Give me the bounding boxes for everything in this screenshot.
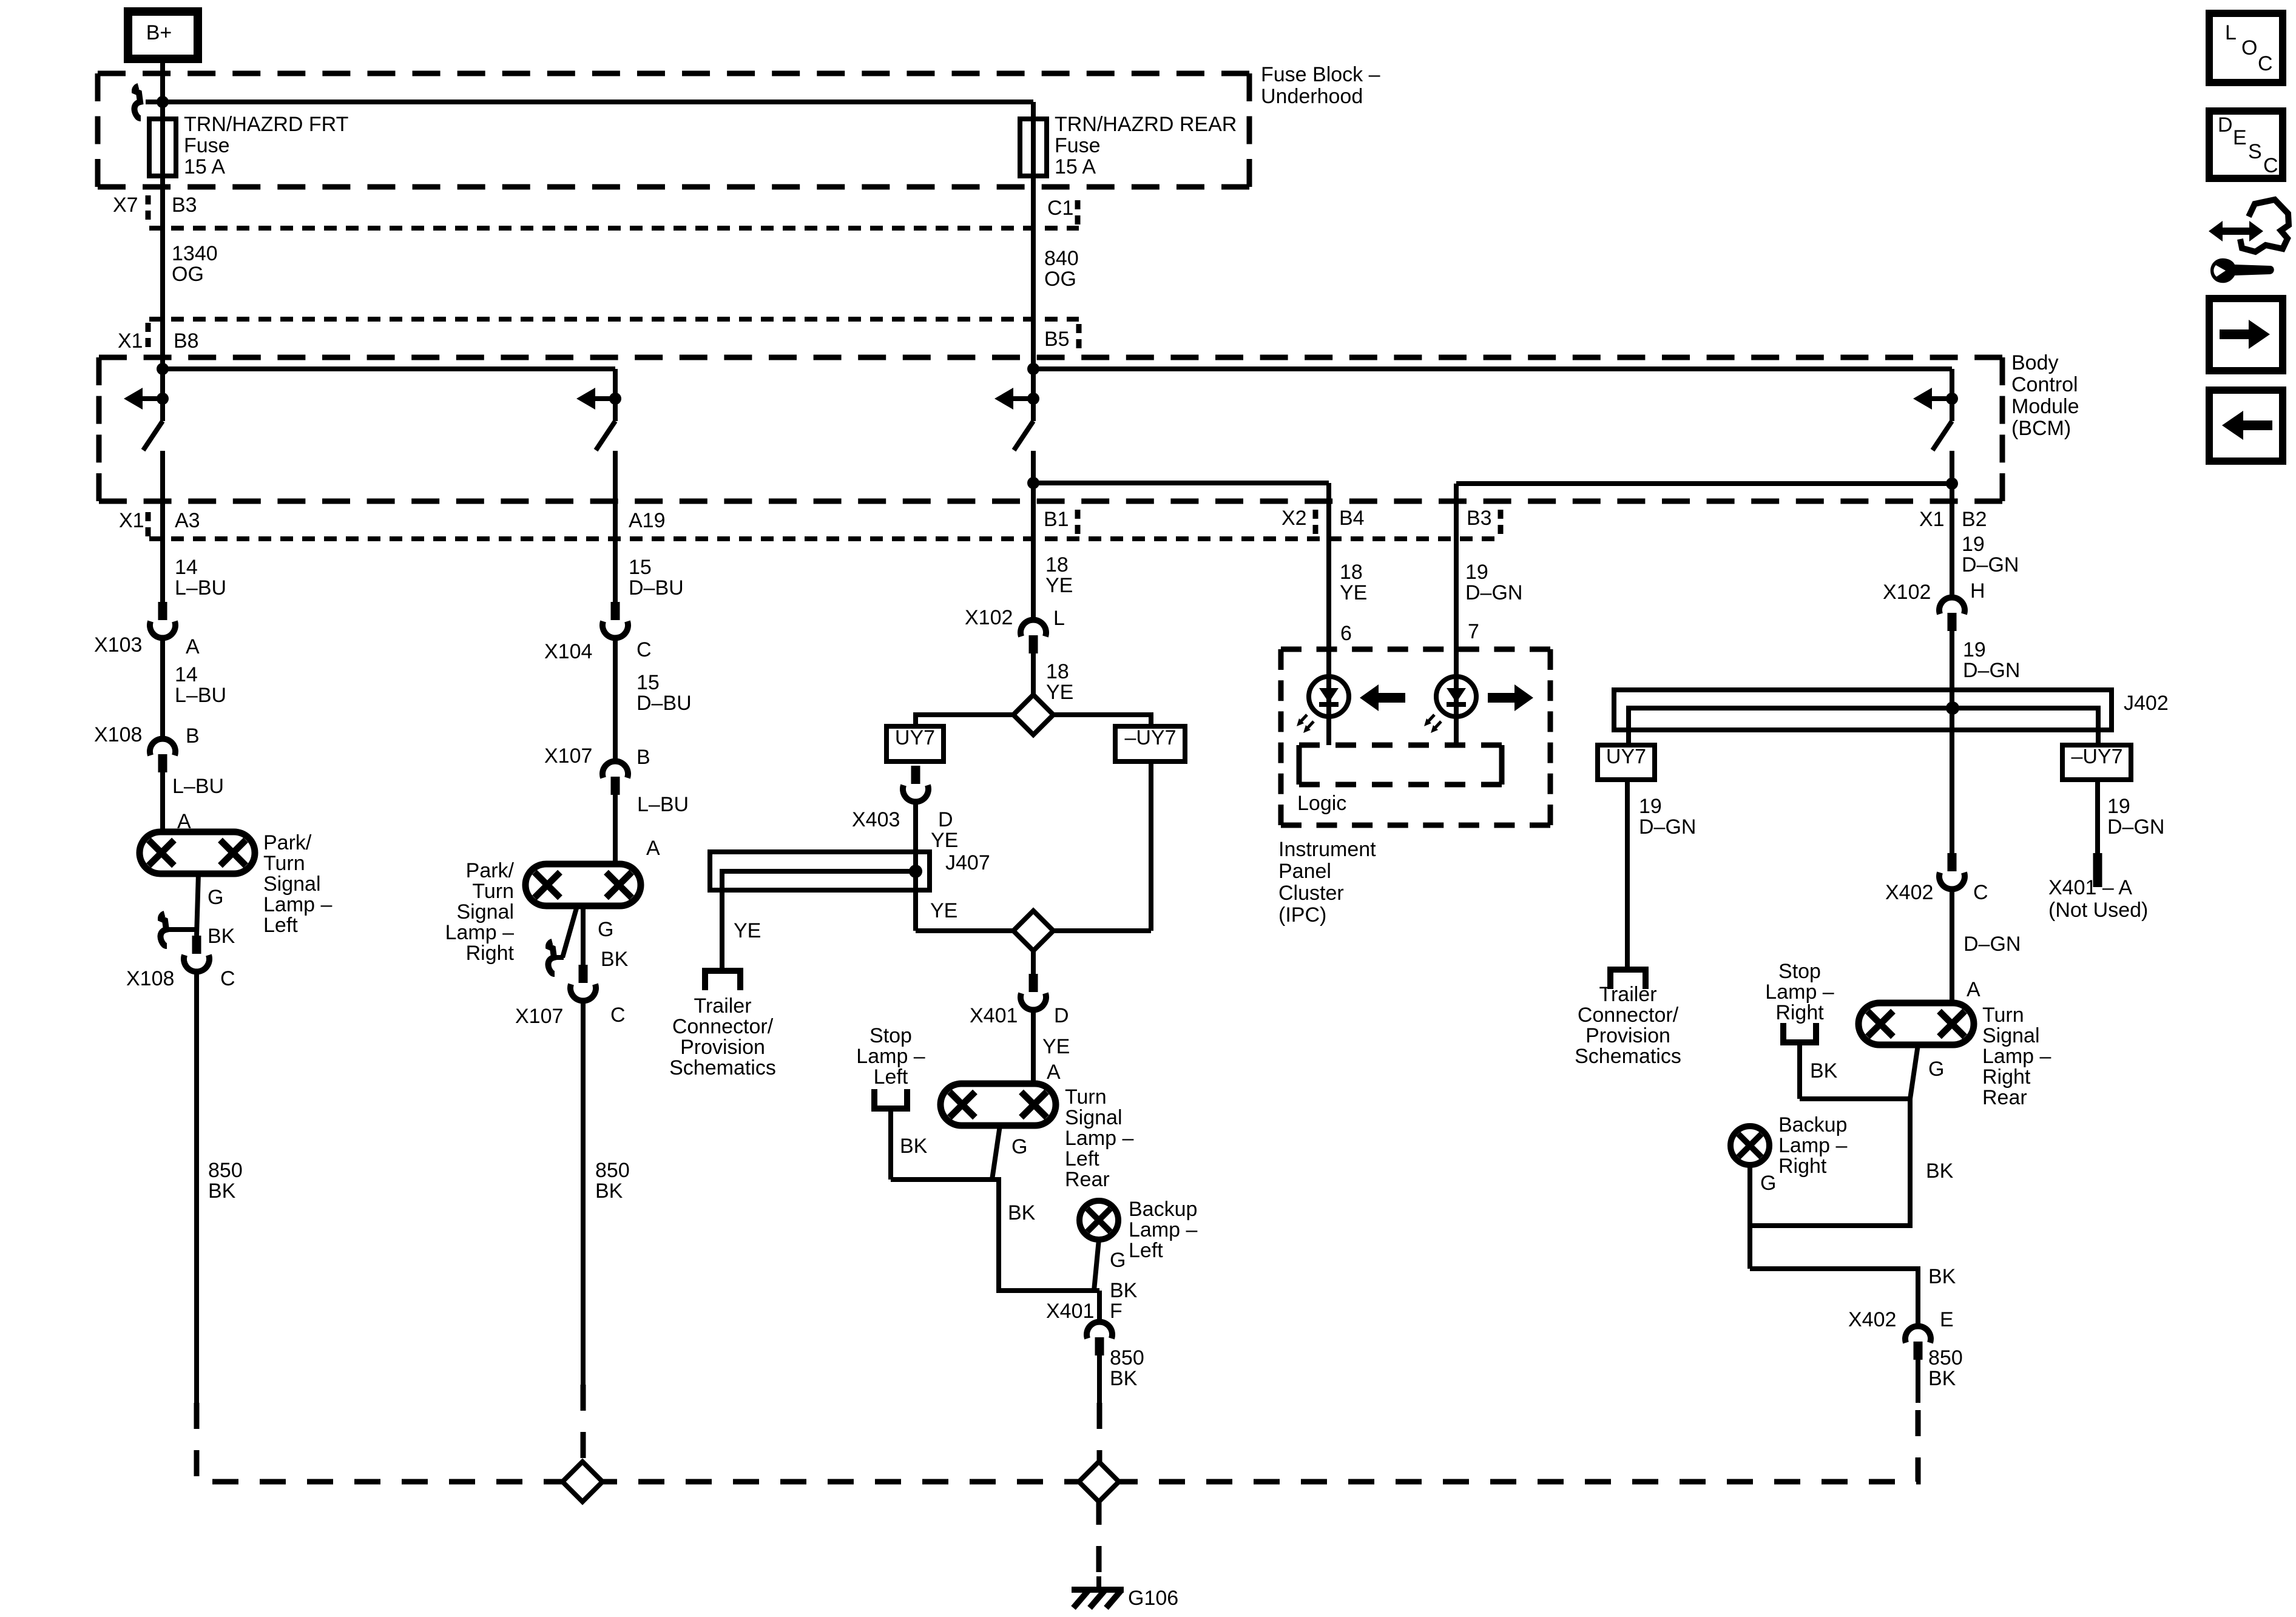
svg-text:Connector/: Connector/ [1578, 1004, 1679, 1027]
svg-text:YE: YE [931, 829, 958, 852]
svg-text:X102: X102 [1883, 581, 1931, 604]
svg-text:Lamp –: Lamp – [1129, 1218, 1197, 1241]
svg-text:15: 15 [636, 671, 660, 694]
svg-text:D: D [2218, 113, 2233, 137]
svg-text:X2: X2 [1281, 507, 1307, 530]
svg-text:Schematics: Schematics [669, 1056, 776, 1079]
svg-text:L: L [1053, 607, 1065, 630]
svg-text:J402: J402 [2124, 692, 2169, 715]
svg-text:C: C [1973, 881, 1988, 904]
svg-text:A: A [646, 837, 660, 860]
svg-text:Fuse Block –: Fuse Block – [1261, 63, 1380, 86]
svg-text:C: C [636, 638, 652, 661]
svg-text:Signal: Signal [456, 900, 514, 923]
svg-text:B: B [186, 724, 200, 748]
svg-text:Fuse: Fuse [184, 134, 230, 157]
svg-text:D–GN: D–GN [1963, 933, 2021, 956]
svg-text:(BCM): (BCM) [2011, 417, 2071, 440]
svg-text:A: A [1967, 978, 1980, 1001]
svg-text:1340: 1340 [172, 242, 218, 265]
svg-text:F: F [1110, 1300, 1123, 1323]
svg-text:B+: B+ [146, 21, 172, 44]
svg-text:14: 14 [175, 663, 198, 686]
svg-text:A: A [177, 810, 191, 833]
svg-text:X103: X103 [94, 633, 142, 657]
svg-text:Turn: Turn [1982, 1004, 2024, 1027]
svg-text:Right: Right [1775, 1001, 1824, 1024]
svg-text:C1: C1 [1047, 197, 1073, 220]
svg-text:G: G [598, 918, 613, 941]
svg-text:Lamp –: Lamp – [1778, 1134, 1847, 1157]
svg-text:D: D [938, 808, 953, 831]
svg-text:Cluster: Cluster [1278, 882, 1344, 905]
svg-text:TRN/HAZRD REAR: TRN/HAZRD REAR [1055, 113, 1237, 136]
svg-text:Lamp –: Lamp – [1065, 1127, 1133, 1150]
svg-text:18: 18 [1340, 561, 1363, 584]
svg-text:Left: Left [874, 1065, 908, 1089]
svg-text:Park/: Park/ [263, 831, 312, 854]
svg-text:850: 850 [1928, 1346, 1963, 1369]
svg-text:Right: Right [1778, 1155, 1827, 1178]
svg-text:BK: BK [1928, 1367, 1956, 1390]
svg-text:YE: YE [1046, 681, 1073, 704]
svg-text:S: S [2248, 140, 2262, 163]
svg-text:A: A [1047, 1061, 1061, 1084]
svg-text:Underhood: Underhood [1261, 85, 1363, 108]
svg-text:Provision: Provision [1585, 1024, 1670, 1047]
svg-text:D–GN: D–GN [1465, 581, 1522, 604]
svg-text:Instrument: Instrument [1278, 838, 1376, 861]
svg-text:6: 6 [1340, 622, 1352, 645]
svg-text:Panel: Panel [1278, 860, 1331, 883]
svg-text:Rear: Rear [1982, 1086, 2027, 1109]
svg-text:15 A: 15 A [184, 155, 225, 178]
svg-text:X403: X403 [852, 808, 900, 831]
svg-text:Trailer: Trailer [1599, 983, 1656, 1006]
svg-text:C: C [2258, 52, 2273, 75]
svg-text:19: 19 [1465, 561, 1488, 584]
svg-text:YE: YE [1042, 1035, 1070, 1058]
svg-text:Signal: Signal [1982, 1024, 2040, 1047]
svg-text:D–GN: D–GN [1639, 815, 1696, 839]
svg-text:E: E [2233, 126, 2247, 149]
svg-text:850: 850 [208, 1159, 243, 1182]
svg-text:Turn: Turn [472, 880, 514, 903]
svg-text:14: 14 [175, 556, 198, 579]
svg-text:BK: BK [1926, 1160, 1954, 1183]
svg-text:BK: BK [601, 948, 629, 971]
svg-text:UY7: UY7 [895, 726, 935, 749]
svg-text:Lamp –: Lamp – [445, 921, 514, 944]
svg-text:BK: BK [208, 1180, 236, 1203]
svg-text:X1: X1 [119, 509, 144, 532]
svg-text:H: H [1970, 579, 1985, 603]
svg-text:YE: YE [734, 919, 761, 942]
svg-text:G: G [1011, 1135, 1027, 1158]
svg-text:Right: Right [466, 942, 515, 965]
svg-text:X7: X7 [113, 194, 138, 217]
svg-text:D–GN: D–GN [1962, 553, 2019, 576]
svg-text:J407: J407 [945, 851, 990, 874]
svg-text:C: C [2263, 154, 2278, 177]
svg-text:E: E [1940, 1308, 1954, 1331]
svg-text:X107: X107 [515, 1005, 563, 1028]
svg-text:850: 850 [595, 1159, 630, 1182]
svg-text:C: C [220, 967, 235, 990]
svg-text:G: G [1760, 1172, 1776, 1195]
svg-text:G: G [208, 886, 223, 909]
svg-text:X104: X104 [544, 640, 592, 663]
svg-text:YE: YE [930, 899, 957, 922]
svg-text:OG: OG [172, 263, 204, 286]
svg-text:B: B [636, 746, 650, 769]
svg-text:Signal: Signal [263, 873, 321, 896]
svg-text:X402: X402 [1848, 1308, 1896, 1331]
svg-text:Control: Control [2011, 373, 2078, 396]
svg-text:Signal: Signal [1065, 1106, 1123, 1129]
svg-text:BK: BK [595, 1180, 623, 1203]
svg-text:–UY7: –UY7 [2071, 745, 2122, 768]
svg-text:D–BU: D–BU [629, 576, 684, 599]
svg-text:Left: Left [263, 914, 298, 937]
svg-text:19: 19 [1963, 638, 1986, 661]
svg-text:19: 19 [1639, 795, 1662, 818]
svg-text:Backup: Backup [1778, 1113, 1847, 1136]
svg-text:B1: B1 [1044, 508, 1069, 531]
svg-text:BK: BK [900, 1135, 928, 1158]
svg-text:L–BU: L–BU [175, 684, 226, 707]
svg-text:X402: X402 [1885, 881, 1933, 904]
svg-text:UY7: UY7 [1606, 745, 1646, 768]
svg-text:Logic: Logic [1297, 792, 1346, 815]
svg-text:BK: BK [1110, 1367, 1138, 1390]
svg-text:D–GN: D–GN [2107, 815, 2164, 839]
svg-text:Lamp –: Lamp – [856, 1045, 925, 1068]
svg-text:A19: A19 [629, 509, 666, 532]
svg-text:Stop: Stop [869, 1024, 912, 1047]
svg-text:Rear: Rear [1065, 1168, 1110, 1191]
svg-text:18: 18 [1045, 553, 1069, 576]
svg-text:Turn: Turn [1065, 1085, 1107, 1109]
svg-text:L–BU: L–BU [637, 793, 689, 816]
svg-text:X1: X1 [1919, 508, 1945, 531]
svg-text:B4: B4 [1339, 507, 1365, 530]
svg-text:Turn: Turn [263, 852, 305, 875]
svg-text:Park/: Park/ [466, 859, 515, 882]
svg-text:X401 – A: X401 – A [2048, 876, 2132, 899]
svg-text:YE: YE [1340, 581, 1367, 604]
svg-text:L–BU: L–BU [172, 775, 224, 798]
svg-text:X401: X401 [1046, 1300, 1094, 1323]
svg-text:O: O [2241, 36, 2257, 59]
svg-text:(Not Used): (Not Used) [2048, 899, 2148, 922]
svg-text:840: 840 [1044, 247, 1079, 270]
svg-text:Right: Right [1982, 1065, 2031, 1089]
svg-text:L–BU: L–BU [175, 576, 226, 599]
svg-text:BK: BK [1110, 1279, 1138, 1302]
svg-text:18: 18 [1046, 660, 1069, 683]
svg-text:BK: BK [1008, 1201, 1036, 1224]
svg-text:A3: A3 [175, 509, 200, 532]
svg-text:Lamp –: Lamp – [1982, 1045, 2051, 1068]
svg-text:B8: B8 [174, 329, 199, 353]
svg-text:–UY7: –UY7 [1124, 726, 1176, 749]
svg-text:Stop: Stop [1778, 960, 1821, 983]
svg-text:Provision: Provision [680, 1036, 765, 1059]
svg-text:850: 850 [1110, 1346, 1144, 1369]
svg-text:B2: B2 [1962, 508, 1987, 531]
svg-text:X108: X108 [126, 967, 174, 990]
svg-text:B3: B3 [1467, 507, 1492, 530]
svg-text:G: G [1928, 1058, 1944, 1081]
svg-text:X108: X108 [94, 723, 142, 746]
svg-text:Module: Module [2011, 395, 2079, 418]
svg-text:X102: X102 [965, 606, 1013, 629]
svg-text:TRN/HAZRD FRT: TRN/HAZRD FRT [184, 113, 348, 136]
svg-text:Connector/: Connector/ [672, 1015, 774, 1038]
svg-text:L: L [2225, 21, 2237, 44]
svg-text:Fuse: Fuse [1055, 134, 1101, 157]
svg-text:BK: BK [208, 925, 235, 948]
svg-text:Lamp –: Lamp – [263, 893, 332, 916]
svg-text:15 A: 15 A [1055, 155, 1096, 178]
svg-text:A: A [186, 635, 200, 658]
svg-text:Trailer: Trailer [694, 994, 751, 1018]
svg-text:OG: OG [1044, 268, 1076, 291]
svg-text:X401: X401 [970, 1004, 1018, 1027]
svg-text:Left: Left [1129, 1239, 1163, 1262]
svg-text:Left: Left [1065, 1147, 1099, 1170]
svg-text:BK: BK [1928, 1265, 1956, 1288]
svg-text:19: 19 [2107, 795, 2130, 818]
svg-text:X107: X107 [544, 744, 592, 768]
svg-text:19: 19 [1962, 533, 1985, 556]
svg-text:7: 7 [1468, 620, 1479, 643]
svg-text:15: 15 [629, 556, 652, 579]
svg-text:Body: Body [2011, 351, 2059, 374]
svg-text:YE: YE [1045, 574, 1073, 597]
svg-text:Backup: Backup [1129, 1198, 1197, 1221]
svg-text:D–GN: D–GN [1963, 659, 2020, 682]
svg-text:Lamp –: Lamp – [1765, 981, 1834, 1004]
svg-text:C: C [610, 1004, 626, 1027]
svg-text:BK: BK [1810, 1059, 1838, 1082]
svg-text:Schematics: Schematics [1575, 1045, 1681, 1068]
svg-text:B3: B3 [172, 194, 197, 217]
svg-text:X1: X1 [118, 329, 143, 353]
svg-text:G: G [1110, 1249, 1126, 1272]
svg-text:G106: G106 [1128, 1587, 1178, 1610]
svg-text:B5: B5 [1044, 328, 1070, 351]
svg-text:(IPC): (IPC) [1278, 903, 1326, 927]
svg-text:D–BU: D–BU [636, 692, 692, 715]
svg-text:D: D [1054, 1004, 1069, 1027]
